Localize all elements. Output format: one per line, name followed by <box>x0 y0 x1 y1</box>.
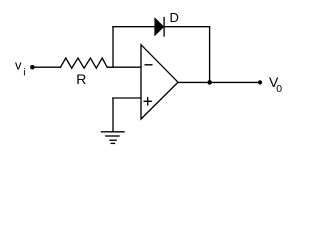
svg-text:R: R <box>76 71 86 87</box>
svg-text:i: i <box>23 67 25 79</box>
svg-text:v: v <box>15 57 22 72</box>
svg-text:D: D <box>170 10 179 25</box>
svg-text:0: 0 <box>276 83 282 95</box>
